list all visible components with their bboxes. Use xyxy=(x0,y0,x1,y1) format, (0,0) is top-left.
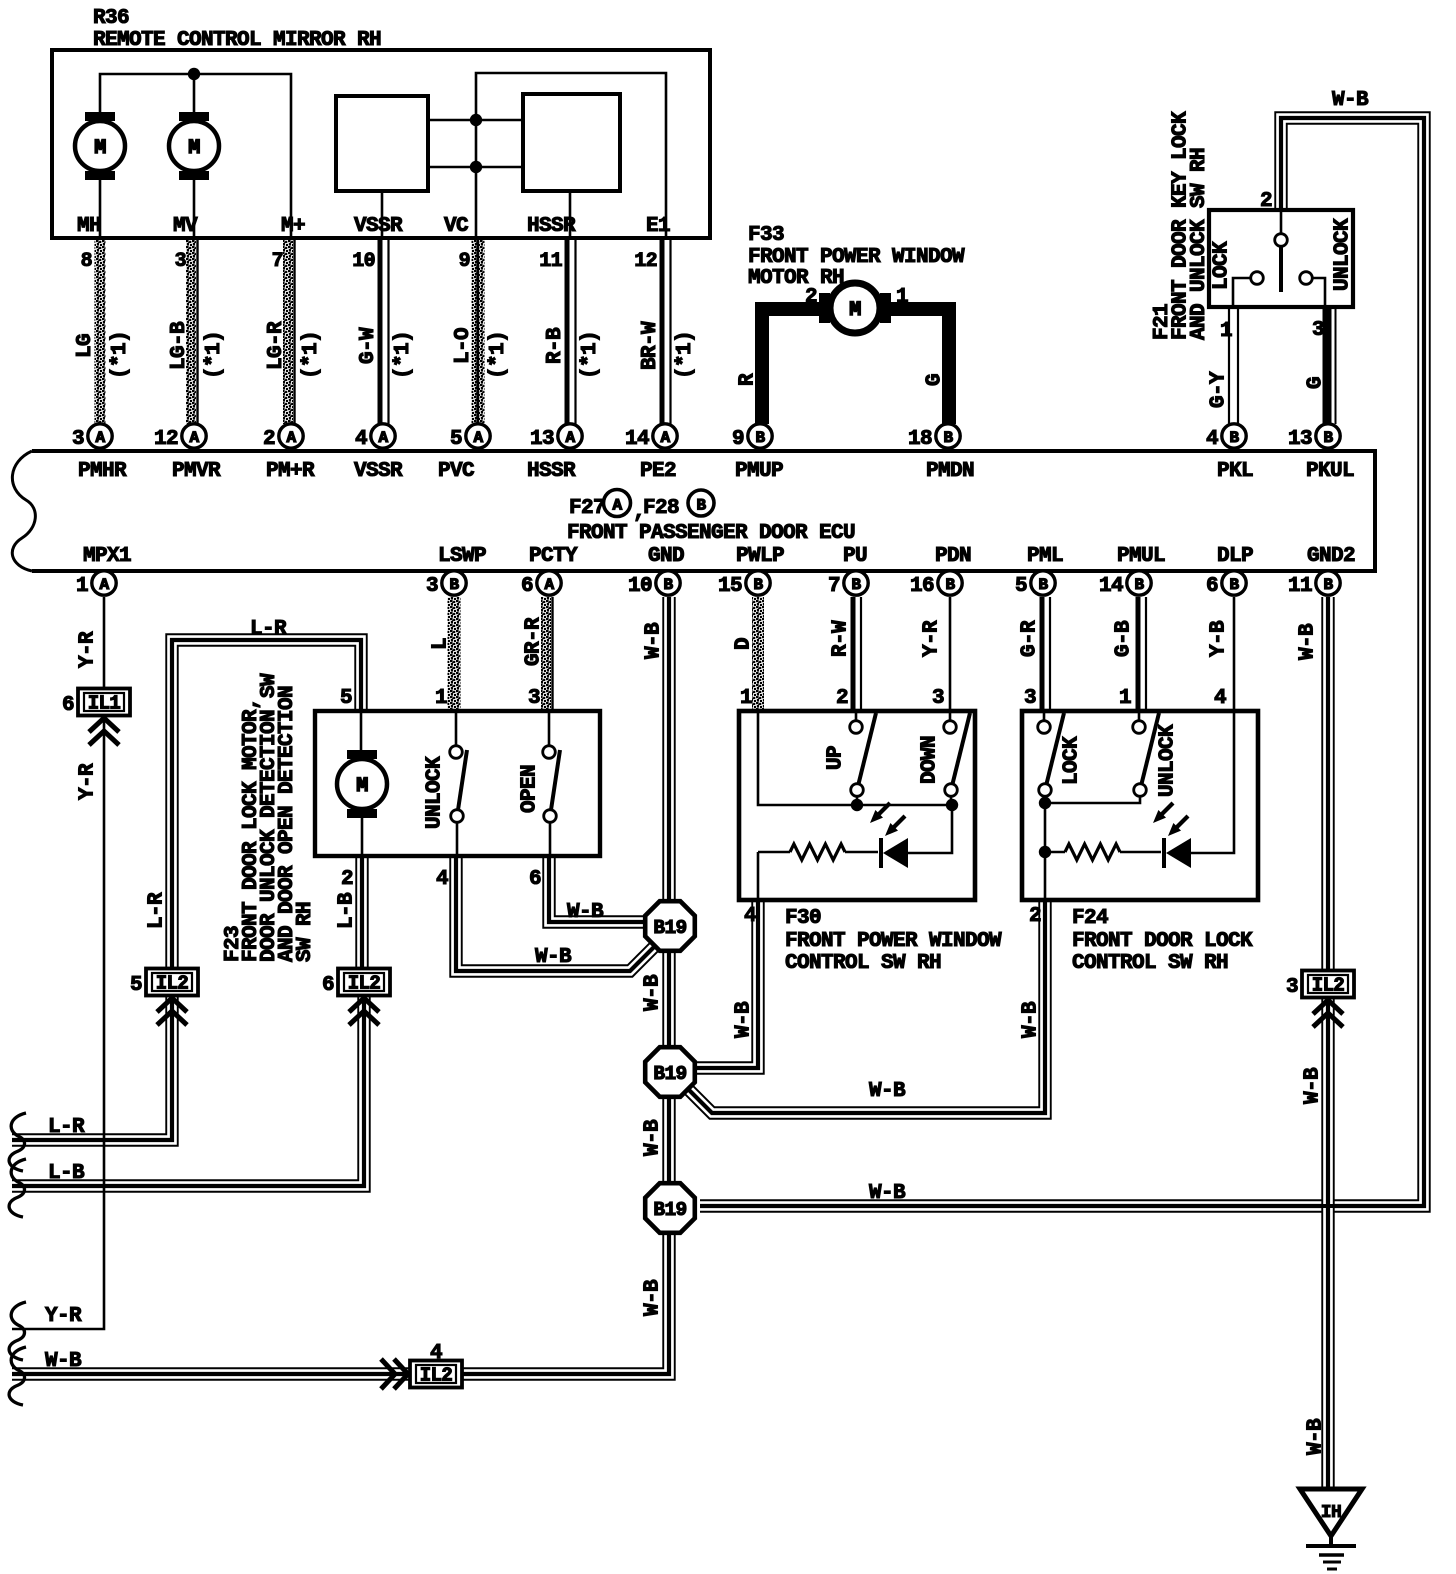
svg-text:(*1): (*1) xyxy=(392,331,415,379)
svg-text:Y-R: Y-R xyxy=(77,763,100,800)
svg-text:W-B: W-B xyxy=(869,1080,906,1103)
svg-text:16: 16 xyxy=(910,575,934,598)
svg-text:W-B: W-B xyxy=(1332,89,1369,112)
svg-text:W-B: W-B xyxy=(642,1279,665,1316)
junction B19 lower xyxy=(645,1183,695,1233)
ECU top connector pins xyxy=(72,424,1340,451)
svg-text:A: A xyxy=(660,429,670,447)
svg-text:PCTY: PCTY xyxy=(529,545,578,568)
svg-text:L-B: L-B xyxy=(336,892,359,929)
svg-text:B19: B19 xyxy=(653,1063,686,1085)
svg-text:FRONT PASSENGER DOOR ECU: FRONT PASSENGER DOOR ECU xyxy=(567,522,855,545)
svg-text:5: 5 xyxy=(130,974,142,997)
svg-text:1: 1 xyxy=(896,286,908,309)
svg-text:A: A xyxy=(612,497,622,515)
svg-text:B: B xyxy=(696,497,706,515)
pin numbers F30 xyxy=(740,687,944,928)
svg-text:M: M xyxy=(94,137,106,160)
svg-text:LG: LG xyxy=(74,334,97,358)
svg-text:B: B xyxy=(1229,576,1239,594)
svg-text:M: M xyxy=(356,775,368,798)
svg-text:PWLP: PWLP xyxy=(736,545,784,568)
svg-text:OPEN: OPEN xyxy=(519,765,542,813)
wire BR-W mirror pin 12 to ECU pin 14 xyxy=(634,240,697,425)
wire R-W PU to F30 pin2 xyxy=(830,597,861,711)
svg-text:VC: VC xyxy=(444,215,469,238)
wire W-B GND pin10 through B19 junctions to bottom stub xyxy=(12,597,669,1374)
svg-text:G: G xyxy=(924,374,947,386)
svg-text:DLP: DLP xyxy=(1217,545,1253,568)
svg-text:B: B xyxy=(1323,576,1333,594)
component vertical mirror sensor xyxy=(336,96,428,238)
svg-text:PVC: PVC xyxy=(438,460,475,483)
svg-text:6: 6 xyxy=(322,974,334,997)
wire E1 sensor ground xyxy=(476,73,666,238)
wire LG-B mirror pin 3 to ECU pin 12 xyxy=(168,240,226,424)
LED F30 illumination xyxy=(870,803,952,868)
crossing patch xyxy=(1310,1204,1348,1208)
svg-text:B: B xyxy=(1323,429,1333,447)
svg-text:R-W: R-W xyxy=(830,620,853,657)
svg-text:PML: PML xyxy=(1027,545,1063,568)
label F27 F28 FRONT PASSENGER DOOR ECU xyxy=(567,490,855,546)
svg-text:PMUL: PMUL xyxy=(1117,545,1165,568)
svg-text:15: 15 xyxy=(718,575,742,598)
svg-text:4: 4 xyxy=(436,868,448,891)
svg-text:LG-B: LG-B xyxy=(168,321,191,370)
svg-text:W-B: W-B xyxy=(1020,1001,1043,1038)
svg-text:12: 12 xyxy=(154,428,178,451)
svg-text:PE2: PE2 xyxy=(640,460,676,483)
svg-text:L-R: L-R xyxy=(48,1116,85,1139)
wire W-B F30 pin4 to B19 xyxy=(697,900,758,1068)
motor mirror vertical xyxy=(169,112,219,238)
svg-text:W-B: W-B xyxy=(642,974,665,1011)
svg-text:IL2: IL2 xyxy=(1312,975,1345,997)
pin numbers F24 xyxy=(1024,687,1226,928)
svg-text:IL2: IL2 xyxy=(420,1365,453,1387)
svg-text:A: A xyxy=(99,576,109,594)
switch DOWN xyxy=(919,711,970,811)
svg-text:2: 2 xyxy=(836,687,848,710)
svg-text:Y-R: Y-R xyxy=(77,631,100,668)
connector IL2 pin5 xyxy=(130,969,198,1026)
svg-text:Y-B: Y-B xyxy=(1208,620,1231,657)
svg-text:R-B: R-B xyxy=(544,327,567,364)
svg-text:M: M xyxy=(849,299,861,322)
svg-text:12: 12 xyxy=(634,250,657,273)
wire R-B mirror pin 11 to ECU pin 13 xyxy=(539,240,602,425)
component FRONT PASSENGER DOOR ECU band xyxy=(12,451,1375,571)
node labels inside R36 xyxy=(77,215,670,238)
svg-text:1: 1 xyxy=(1220,320,1232,343)
component F30 FRONT POWER WINDOW CONTROL SW RH box xyxy=(739,711,1002,975)
wire R motor pin 2 xyxy=(737,286,822,424)
svg-text:2: 2 xyxy=(1029,905,1041,928)
svg-text:FRONT DOOR LOCK: FRONT DOOR LOCK xyxy=(1072,930,1253,953)
stub Y-R continuation xyxy=(9,1302,82,1360)
svg-text:VSSR: VSSR xyxy=(354,215,403,238)
connector IL1 pin6 xyxy=(62,689,130,746)
motor mirror horizontal xyxy=(75,112,125,238)
svg-text:W-B: W-B xyxy=(643,622,666,659)
svg-text:GND2: GND2 xyxy=(1307,545,1355,568)
svg-text:7: 7 xyxy=(272,250,283,273)
svg-text:1: 1 xyxy=(76,575,88,598)
LED F24 illumination xyxy=(1153,711,1234,868)
svg-text:3: 3 xyxy=(175,250,186,273)
svg-text:W-B: W-B xyxy=(869,1182,906,1205)
connector IL2 pin4 xyxy=(381,1342,462,1389)
stub W-B continuation xyxy=(9,1347,82,1405)
svg-text:F30: F30 xyxy=(785,907,821,930)
svg-text:IL1: IL1 xyxy=(88,693,121,715)
svg-text:MPX1: MPX1 xyxy=(83,545,131,568)
svg-text:F33: F33 xyxy=(748,224,784,247)
svg-text:L-R: L-R xyxy=(250,618,287,641)
svg-text:UNLOCK: UNLOCK xyxy=(1157,724,1180,797)
wire L-B motor low side xyxy=(12,856,364,1186)
svg-text:B: B xyxy=(755,429,765,447)
svg-text:A: A xyxy=(378,429,388,447)
svg-text:LOCK: LOCK xyxy=(1061,736,1084,785)
svg-text:4: 4 xyxy=(355,428,367,451)
svg-text:F27: F27 xyxy=(569,497,605,520)
wire G-W mirror pin 10 to ECU pin 4 xyxy=(352,240,415,425)
svg-text:PKUL: PKUL xyxy=(1306,460,1354,483)
svg-text:8: 8 xyxy=(81,250,92,273)
svg-text:AND UNLOCK SW RH: AND UNLOCK SW RH xyxy=(1188,148,1211,340)
svg-text:IL2: IL2 xyxy=(156,973,189,995)
wire F24 common to pin2 xyxy=(1039,803,1051,900)
svg-text:Y-R: Y-R xyxy=(45,1305,82,1328)
svg-text:FRONT POWER WINDOW: FRONT POWER WINDOW xyxy=(748,246,965,269)
svg-text:G: G xyxy=(1305,377,1328,389)
svg-text:9: 9 xyxy=(459,250,470,273)
svg-text:REMOTE CONTROL MIRROR RH: REMOTE CONTROL MIRROR RH xyxy=(93,29,381,52)
switch UP xyxy=(825,711,876,811)
wire G key switch pin3 xyxy=(1305,307,1336,424)
svg-text:13: 13 xyxy=(1288,428,1312,451)
svg-text:BR-W: BR-W xyxy=(639,321,662,370)
node names ECU top row xyxy=(78,460,1354,483)
wire L-R door lock motor loop xyxy=(12,618,361,1140)
svg-text:PU: PU xyxy=(843,545,867,568)
svg-text:4: 4 xyxy=(430,1342,442,1365)
wire D PWLP to F30 pin1 xyxy=(733,597,764,711)
svg-text:3: 3 xyxy=(426,575,438,598)
wire Y-B DLP to F24 pin4 xyxy=(1208,597,1234,711)
svg-text:R36: R36 xyxy=(93,7,129,30)
svg-text:PMHR: PMHR xyxy=(78,460,127,483)
svg-text:CONTROL SW RH: CONTROL SW RH xyxy=(785,952,941,975)
svg-text:10: 10 xyxy=(628,575,652,598)
svg-text:UNLOCK: UNLOCK xyxy=(1332,218,1355,291)
svg-text:PMUP: PMUP xyxy=(735,460,783,483)
svg-text:(*1): (*1) xyxy=(203,331,226,379)
svg-text:PDN: PDN xyxy=(935,545,971,568)
svg-text:HSSR: HSSR xyxy=(527,215,576,238)
svg-text:(*1): (*1) xyxy=(109,331,132,379)
svg-text:W-B: W-B xyxy=(1302,1067,1325,1104)
svg-text:W-B: W-B xyxy=(733,1001,756,1038)
svg-text:G-Y: G-Y xyxy=(1208,371,1231,408)
svg-text:PMVR: PMVR xyxy=(172,460,221,483)
svg-text:PM+R: PM+R xyxy=(266,460,315,483)
svg-text:A: A xyxy=(189,429,199,447)
svg-text:4: 4 xyxy=(1214,687,1226,710)
svg-text:6: 6 xyxy=(521,575,533,598)
svg-text:5: 5 xyxy=(340,687,352,710)
svg-text:GR-R: GR-R xyxy=(523,617,546,666)
svg-text:F24: F24 xyxy=(1072,907,1108,930)
svg-text:LOCK: LOCK xyxy=(1211,241,1234,290)
resistor F30 illumination xyxy=(758,844,878,900)
wire G motor pin 1 xyxy=(888,286,949,424)
wire W-B F23 pin4 to junction B19 xyxy=(456,856,655,971)
component R36 REMOTE CONTROL MIRROR RH box xyxy=(52,7,710,238)
svg-text:B: B xyxy=(753,576,763,594)
svg-text:B: B xyxy=(1134,576,1144,594)
stub L-R continuation xyxy=(9,1113,85,1171)
component F24 FRONT DOOR LOCK CONTROL SW RH box xyxy=(1022,711,1258,975)
svg-text:B19: B19 xyxy=(653,917,686,939)
svg-text:D: D xyxy=(733,638,756,650)
svg-text:M: M xyxy=(188,137,200,160)
svg-text:A: A xyxy=(95,429,105,447)
svg-text:4: 4 xyxy=(744,905,756,928)
svg-text:W-B: W-B xyxy=(1305,1418,1328,1455)
junction B19 upper xyxy=(645,901,695,951)
wire W-B GND2 pin11 to ground IH xyxy=(1297,597,1328,1489)
motor F33 xyxy=(819,283,891,333)
svg-text:L-R: L-R xyxy=(146,892,169,929)
svg-text:14: 14 xyxy=(1099,575,1123,598)
svg-text:MH: MH xyxy=(77,215,101,238)
svg-text:10: 10 xyxy=(352,250,375,273)
svg-text:G-W: G-W xyxy=(357,327,380,364)
wire W-B F23 pin6 to junction B19 xyxy=(549,856,648,924)
svg-text:DOWN: DOWN xyxy=(919,736,942,784)
svg-text:W-B: W-B xyxy=(45,1350,82,1373)
component F23 FRONT DOOR LOCK MOTOR box xyxy=(315,711,600,856)
switch OPEN detection xyxy=(519,711,560,856)
component horizontal mirror sensor xyxy=(523,94,620,238)
svg-text:B: B xyxy=(449,576,459,594)
svg-text:6: 6 xyxy=(1206,575,1218,598)
svg-text:6: 6 xyxy=(62,694,74,717)
wire LG mirror pin 8 to ECU pin 3 xyxy=(74,240,132,424)
svg-text:5: 5 xyxy=(1015,575,1027,598)
svg-text:A: A xyxy=(565,429,575,447)
node names ECU bottom row xyxy=(83,545,1355,568)
svg-text:3: 3 xyxy=(1312,319,1324,342)
wire LG-R mirror pin 7 to ECU pin 2 xyxy=(265,240,323,424)
svg-text:1: 1 xyxy=(1119,687,1131,710)
svg-text:MV: MV xyxy=(173,215,198,238)
svg-text:5: 5 xyxy=(450,428,462,451)
svg-text:HSSR: HSSR xyxy=(527,460,576,483)
svg-text:MOTOR RH: MOTOR RH xyxy=(748,267,844,290)
svg-text:VSSR: VSSR xyxy=(354,460,403,483)
svg-text:A: A xyxy=(286,429,296,447)
label F23 xyxy=(222,673,317,962)
svg-text:B: B xyxy=(1038,576,1048,594)
svg-text:2: 2 xyxy=(341,868,353,891)
svg-text:L-O: L-O xyxy=(452,328,475,364)
svg-text:9: 9 xyxy=(732,428,744,451)
svg-text:11: 11 xyxy=(539,250,562,273)
svg-text:2: 2 xyxy=(263,428,275,451)
ground IH xyxy=(1300,1489,1362,1569)
svg-text:PKL: PKL xyxy=(1217,460,1253,483)
svg-text:L: L xyxy=(430,638,453,650)
svg-text:Y-R: Y-R xyxy=(921,620,944,657)
svg-text:PMDN: PMDN xyxy=(926,460,974,483)
svg-text:B: B xyxy=(945,576,955,594)
switch LOCK xyxy=(1038,711,1084,809)
component F33 FRONT POWER WINDOW MOTOR RH xyxy=(748,224,965,290)
wire mirror motor common xyxy=(100,68,291,238)
svg-text:B: B xyxy=(851,576,861,594)
connector IL2 pin3 xyxy=(1286,971,1354,1028)
svg-text:(*1): (*1) xyxy=(579,331,602,379)
wire L-O mirror pin 9 to ECU pin 5 xyxy=(452,240,510,424)
svg-text:GND: GND xyxy=(648,545,684,568)
svg-text:(*1): (*1) xyxy=(300,331,323,379)
wire Y-R MPX1 pin1 via IL1 to stub xyxy=(12,597,104,1329)
svg-text:(*1): (*1) xyxy=(674,331,697,379)
svg-text:M+: M+ xyxy=(281,215,305,238)
wire W-B F24 pin2 to B19 xyxy=(689,900,1045,1113)
svg-text:14: 14 xyxy=(625,428,649,451)
svg-text:7: 7 xyxy=(828,575,840,598)
svg-text:G-B: G-B xyxy=(1113,620,1136,657)
svg-text:13: 13 xyxy=(530,428,554,451)
wire F30 pin1 internal to switch common xyxy=(758,711,952,805)
svg-text:3: 3 xyxy=(1286,976,1298,999)
switch key lock blade xyxy=(1275,212,1288,292)
svg-text:B: B xyxy=(663,576,673,594)
wire L LSWP to F23 pin1 xyxy=(430,597,461,711)
svg-text:UP: UP xyxy=(825,746,848,770)
svg-text:W-B: W-B xyxy=(535,946,572,969)
svg-text:W-B: W-B xyxy=(1297,623,1320,660)
svg-text:A: A xyxy=(544,576,554,594)
junction patch xyxy=(1280,212,1283,234)
svg-text:CONTROL SW RH: CONTROL SW RH xyxy=(1072,952,1228,975)
svg-text:1: 1 xyxy=(435,687,447,710)
svg-text:LG-R: LG-R xyxy=(265,321,288,370)
wire G-Y key switch pin1 xyxy=(1208,307,1238,424)
svg-text:B19: B19 xyxy=(653,1199,686,1221)
wire W-B B19 to right edge xyxy=(869,1182,906,1205)
svg-text:(*1): (*1) xyxy=(487,331,510,379)
stub L-B continuation xyxy=(9,1159,85,1217)
component F21 FRONT DOOR KEY LOCK AND UNLOCK SW RH box xyxy=(1209,210,1353,307)
wire G-R PML to F24 pin3 xyxy=(1019,597,1050,711)
svg-text:IL2: IL2 xyxy=(348,973,381,995)
wire Y-R PDN to F30 pin3 xyxy=(921,597,950,711)
svg-text:6: 6 xyxy=(529,868,541,891)
svg-text:UNLOCK: UNLOCK xyxy=(424,756,447,829)
switch UNLOCK detection xyxy=(424,711,467,856)
svg-text:FRONT POWER WINDOW: FRONT POWER WINDOW xyxy=(785,930,1002,953)
svg-text:A: A xyxy=(473,429,483,447)
svg-text:W-B: W-B xyxy=(567,901,604,924)
switch UNLOCK lock sw xyxy=(1045,711,1180,803)
connector IL2 pin6 xyxy=(322,969,390,1026)
svg-text:IH: IH xyxy=(1321,1503,1341,1523)
svg-text:SW RH: SW RH xyxy=(294,902,317,962)
svg-text:G-R: G-R xyxy=(1019,620,1042,657)
svg-text:E1: E1 xyxy=(646,215,670,238)
svg-text:LSWP: LSWP xyxy=(438,545,486,568)
svg-text:L-B: L-B xyxy=(48,1162,85,1185)
svg-text:3: 3 xyxy=(932,687,944,710)
svg-text:3: 3 xyxy=(1024,687,1036,710)
ECU bottom connector pins xyxy=(76,571,1340,598)
motor F23 door lock xyxy=(337,711,387,856)
junction B19 middle xyxy=(645,1047,695,1097)
contact UNLOCK xyxy=(1300,218,1355,307)
svg-text:3: 3 xyxy=(528,687,540,710)
wire VC sensor supply xyxy=(428,114,523,238)
svg-text:2: 2 xyxy=(805,286,817,309)
svg-text:B: B xyxy=(943,429,953,447)
svg-text:11: 11 xyxy=(1288,575,1312,598)
svg-text:18: 18 xyxy=(908,428,932,451)
pin numbers F23 xyxy=(340,687,541,891)
svg-text:R: R xyxy=(737,373,760,386)
wire GR-R PCTY to F23 pin3 xyxy=(523,597,553,711)
wire G-B PMUL to F24 pin1 xyxy=(1113,597,1146,711)
wire W-B key switch pin 2 to right edge down to B19 xyxy=(700,89,1424,1206)
svg-text:F28: F28 xyxy=(643,497,679,520)
svg-text:1: 1 xyxy=(740,687,752,710)
resistor F24 illumination xyxy=(1045,844,1161,860)
svg-text:4: 4 xyxy=(1206,428,1218,451)
svg-text:W-B: W-B xyxy=(642,1119,665,1156)
svg-text:3: 3 xyxy=(72,428,84,451)
svg-text:B: B xyxy=(1229,429,1239,447)
contact LOCK xyxy=(1211,241,1264,307)
